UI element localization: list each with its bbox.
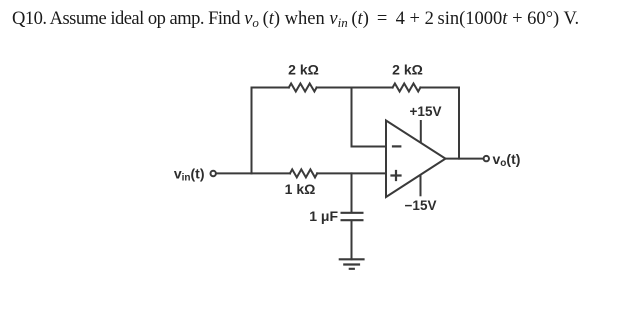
minus sign inverting input bbox=[393, 145, 400, 147]
wire capacitor bottom lead bbox=[351, 221, 353, 259]
terminal vin bbox=[211, 171, 216, 176]
ground bbox=[340, 259, 364, 269]
wire capacitor top lead bbox=[351, 173, 353, 212]
svg-text:1 kΩ: 1 kΩ bbox=[285, 181, 316, 197]
wire top-left segment bbox=[252, 87, 289, 89]
terminal vo bbox=[484, 156, 489, 161]
svg-text:+15V: +15V bbox=[410, 104, 442, 119]
wire top-right segment bbox=[420, 87, 459, 89]
svg-text:2 kΩ: 2 kΩ bbox=[392, 62, 423, 78]
op-amp triangle bbox=[386, 121, 446, 198]
svg-text:vo(t): vo(t) bbox=[493, 151, 521, 169]
svg-text:2 kΩ: 2 kΩ bbox=[288, 62, 319, 78]
resistor 2k feedback-left bbox=[289, 84, 317, 92]
wire input left segment bbox=[217, 172, 291, 174]
wire output bbox=[446, 158, 484, 160]
wire middle vertical (to inverting input) bbox=[352, 88, 387, 147]
plus sign non-inverting input bbox=[392, 171, 401, 180]
supply stub +15V bbox=[420, 121, 422, 142]
svg-text:vin(t): vin(t) bbox=[174, 166, 205, 184]
wire input right segment (to + input) bbox=[317, 172, 386, 174]
resistor 1k input bbox=[290, 169, 317, 177]
svg-text:1 μF: 1 μF bbox=[309, 208, 338, 224]
wire top-middle segment bbox=[317, 87, 393, 89]
problem statement text bbox=[12, 9, 632, 31]
resistor 2k feedback-right bbox=[393, 84, 421, 92]
capacitor 1uF plates bbox=[342, 213, 363, 220]
supply stub -15V bbox=[420, 176, 422, 196]
svg-text:−15V: −15V bbox=[405, 198, 437, 213]
wire right vertical (feedback to output) bbox=[458, 88, 460, 159]
wire left vertical (top wire to input node) bbox=[251, 88, 253, 174]
